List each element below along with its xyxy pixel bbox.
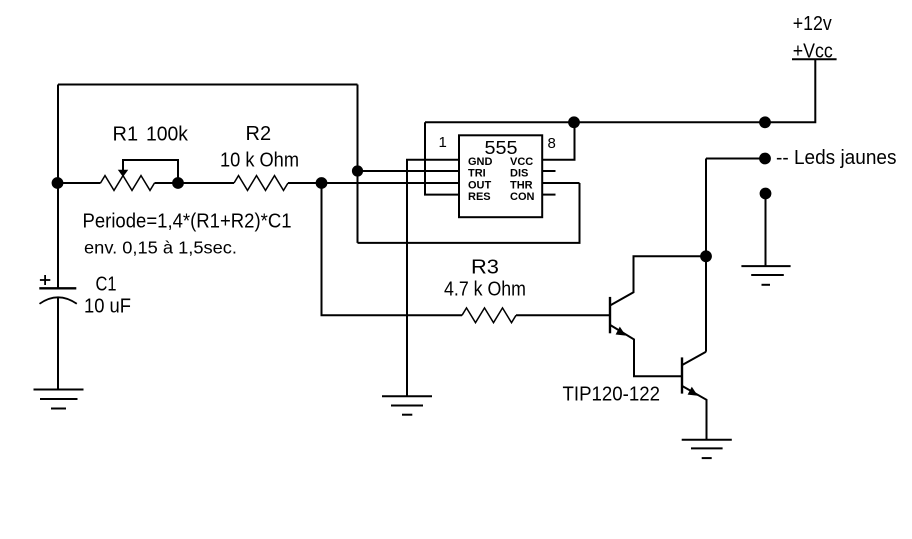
svg-text:8: 8 xyxy=(548,135,556,152)
svg-text:100k: 100k xyxy=(146,123,189,145)
svg-text:RES: RES xyxy=(468,191,491,203)
svg-text:DIS: DIS xyxy=(510,167,528,179)
svg-text:env. 0,15 à 1,5sec.: env. 0,15 à 1,5sec. xyxy=(84,238,237,258)
svg-text:VCC: VCC xyxy=(510,156,533,168)
svg-text:10 uF: 10 uF xyxy=(84,296,131,318)
svg-text:CON: CON xyxy=(510,191,535,203)
svg-text:R1: R1 xyxy=(113,123,139,145)
svg-text:C1: C1 xyxy=(96,274,117,296)
svg-text:4.7 k Ohm: 4.7 k Ohm xyxy=(444,279,526,301)
svg-text:R3: R3 xyxy=(471,257,499,279)
svg-text:1: 1 xyxy=(439,134,447,151)
svg-text:TRI: TRI xyxy=(468,167,486,179)
svg-text:10 k Ohm: 10 k Ohm xyxy=(220,150,299,172)
svg-text:555: 555 xyxy=(485,138,518,158)
svg-text:OUT: OUT xyxy=(468,179,492,191)
svg-text:THR: THR xyxy=(510,179,533,191)
svg-text:-- Leds jaunes: -- Leds jaunes xyxy=(776,147,897,169)
svg-text:TIP120-122: TIP120-122 xyxy=(563,384,661,406)
svg-text:R2: R2 xyxy=(246,123,272,145)
svg-text:+12v: +12v xyxy=(793,13,832,35)
svg-text:GND: GND xyxy=(468,156,493,168)
svg-text:+Vcc: +Vcc xyxy=(793,41,833,63)
svg-text:Periode=1,4*(R1+R2)*C1: Periode=1,4*(R1+R2)*C1 xyxy=(83,211,292,233)
